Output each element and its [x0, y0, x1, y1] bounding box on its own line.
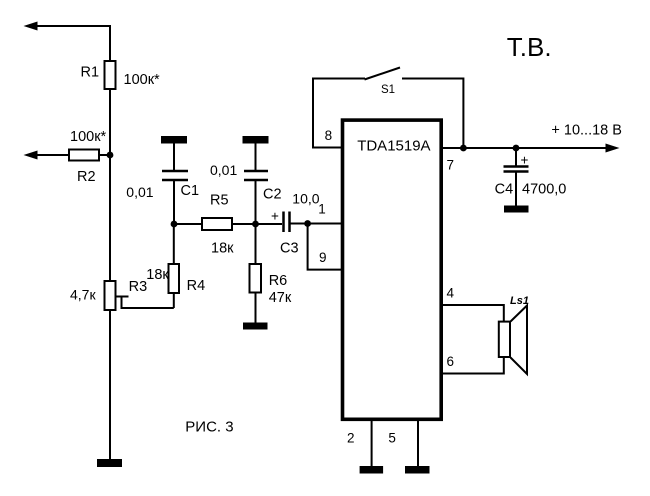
svg-text:+ 10...18 В: + 10...18 В [551, 123, 622, 139]
svg-text:R3: R3 [129, 279, 148, 295]
svg-text:8: 8 [325, 128, 333, 143]
svg-text:18к: 18к [211, 241, 234, 257]
svg-text:C4: C4 [495, 181, 514, 197]
svg-text:R6: R6 [269, 273, 288, 289]
svg-text:+: + [521, 153, 529, 168]
svg-text:R4: R4 [187, 278, 206, 294]
svg-text:0,01: 0,01 [126, 184, 153, 200]
svg-text:4: 4 [447, 285, 455, 300]
svg-text:R2: R2 [77, 169, 96, 185]
svg-text:Ls1: Ls1 [510, 295, 529, 307]
svg-text:10,0: 10,0 [292, 191, 319, 207]
svg-text:РИС. 3: РИС. 3 [185, 418, 233, 435]
svg-text:0,01: 0,01 [210, 162, 237, 178]
svg-text:47к: 47к [269, 290, 292, 306]
svg-text:1: 1 [318, 201, 326, 216]
svg-text:18к: 18к [146, 267, 169, 283]
svg-text:Т.В.: Т.В. [507, 32, 552, 62]
svg-text:100к*: 100к* [124, 72, 161, 88]
svg-text:4700,0: 4700,0 [522, 181, 566, 197]
svg-text:TDA1519A: TDA1519A [357, 138, 430, 155]
svg-text:R5: R5 [210, 193, 229, 209]
svg-text:S1: S1 [381, 84, 395, 96]
svg-text:+: + [271, 209, 279, 224]
svg-text:100к*: 100к* [70, 129, 107, 145]
svg-text:4,7к: 4,7к [70, 287, 96, 303]
svg-text:9: 9 [319, 250, 327, 265]
svg-text:5: 5 [388, 430, 396, 445]
svg-text:C3: C3 [280, 241, 299, 257]
svg-text:R1: R1 [81, 65, 100, 81]
svg-text:6: 6 [447, 354, 455, 369]
svg-text:C1: C1 [181, 183, 200, 199]
svg-text:7: 7 [447, 157, 455, 172]
svg-text:C2: C2 [263, 187, 282, 203]
svg-text:2: 2 [347, 430, 355, 445]
